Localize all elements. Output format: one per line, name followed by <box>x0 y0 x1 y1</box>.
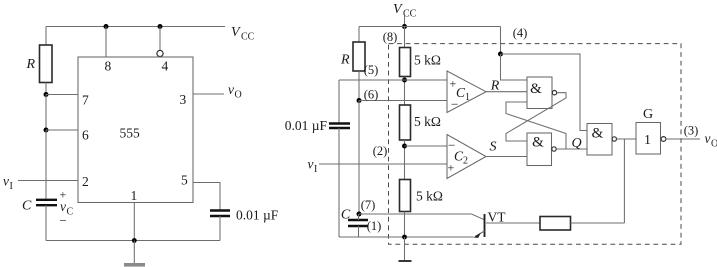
wire VCC top rail (right circuit) <box>359 26 501 28</box>
node dot pin7 (right) <box>357 212 362 217</box>
label 0.01 uF (right) <box>285 118 328 133</box>
comparator C1 <box>447 71 486 113</box>
nand gate2 (S) box <box>527 133 552 166</box>
label 5 kOhm middle <box>414 114 441 129</box>
wire column to pin7 node <box>358 101 360 215</box>
svg-text:(4): (4) <box>513 26 528 40</box>
pin label 1 <box>131 188 138 203</box>
svg-text:(5): (5) <box>364 63 379 77</box>
label vI (left) <box>3 174 13 193</box>
label (4) <box>513 26 528 40</box>
label G <box>643 107 653 122</box>
ground symbol (right) <box>399 237 412 261</box>
svg-text:CC: CC <box>403 9 417 20</box>
wire node2 to C2 minus <box>405 145 448 147</box>
label (2) <box>373 144 388 158</box>
wire pin 3 output <box>193 93 224 95</box>
svg-text:v: v <box>228 82 234 97</box>
svg-text:S: S <box>490 140 497 155</box>
pin label 2 <box>82 174 89 189</box>
label gate2 & <box>532 135 544 151</box>
svg-text:1: 1 <box>131 188 138 203</box>
label 1 in G <box>644 133 651 148</box>
pin label 3 <box>180 92 187 107</box>
capacitor C (left) plates <box>36 200 57 205</box>
svg-text:G: G <box>643 107 653 122</box>
pin 4 bubble <box>157 50 163 56</box>
wire VCC to resistor R top <box>45 27 47 46</box>
node dot pin6 <box>44 128 49 133</box>
label vI (right) <box>308 157 318 176</box>
pin label 4 <box>162 59 169 74</box>
resistor R (right) <box>353 42 365 71</box>
gate1 output bubble <box>552 91 556 95</box>
svg-text:4: 4 <box>162 59 169 74</box>
resistor R (left) <box>40 45 53 83</box>
svg-text:2: 2 <box>82 174 89 189</box>
wire bottom ground rail (left) <box>46 240 220 242</box>
dashed IC boundary box <box>389 44 682 245</box>
svg-text:5: 5 <box>181 173 188 188</box>
ground symbol (left) <box>124 241 145 267</box>
wire rail to resistor R (right) <box>358 27 360 43</box>
svg-text:(8): (8) <box>383 30 398 44</box>
wire base resistor to Q-bar node <box>571 222 625 224</box>
wire R bottom to node7 <box>45 83 47 95</box>
wire pin4 across to gate3 <box>501 54 588 131</box>
wire pin7 line to VT collector <box>359 214 485 220</box>
wire pin6 line to C1 <box>359 100 447 102</box>
wire pin5 line <box>339 79 447 81</box>
label 555 <box>120 126 141 141</box>
wire capacitor C to ground rail <box>45 205 47 240</box>
svg-text:&: & <box>532 135 544 151</box>
svg-text:3: 3 <box>180 92 187 107</box>
svg-text:v: v <box>60 199 66 214</box>
wire divider seg1 <box>404 77 406 106</box>
wire input vI to pin 2 <box>18 180 78 182</box>
svg-text:I: I <box>10 181 13 192</box>
svg-text:V: V <box>393 2 403 17</box>
label gate3 & <box>592 126 604 142</box>
label VCC (right) <box>393 2 417 20</box>
wire pin5 down to cap 0.01 (right) <box>338 80 340 123</box>
label vO (left) <box>228 82 242 101</box>
nand gate3 box <box>587 124 612 156</box>
node dot ground rail <box>132 238 137 243</box>
wire drop to VT base resistor <box>623 139 625 223</box>
wire cap 0.01 (right) to rail <box>338 128 340 237</box>
label 5 kOhm top <box>414 53 441 68</box>
svg-text:5 kΩ: 5 kΩ <box>416 189 443 204</box>
svg-text:VT: VT <box>488 210 507 225</box>
resistor 5k top <box>400 48 411 77</box>
svg-text:+: + <box>448 161 455 175</box>
svg-text:0.01 µF: 0.01 µF <box>236 208 279 223</box>
svg-text:(6): (6) <box>364 88 379 102</box>
svg-text:555: 555 <box>120 126 141 141</box>
wire R bottom down column <box>358 71 360 101</box>
svg-text:8: 8 <box>105 59 112 74</box>
wire pin4 drop into box <box>500 27 502 55</box>
svg-text:C: C <box>67 207 74 218</box>
wire pin 1 drop <box>133 203 135 241</box>
wire C2 output to S input <box>486 156 527 158</box>
capacitor 0.01uF (left) plates <box>210 211 230 217</box>
IC 555 box <box>78 57 193 203</box>
svg-text:R: R <box>26 57 36 72</box>
wire node7 to node6 <box>45 95 47 131</box>
wire pin 7 <box>46 94 78 96</box>
svg-text:R: R <box>490 79 500 94</box>
wire pin 4 drop <box>159 27 161 51</box>
node dot pin7 <box>44 92 49 97</box>
wire VCC top rail (left circuit) <box>46 26 225 28</box>
wire VT base <box>486 222 540 224</box>
wire vI line to C2 plus <box>319 163 447 165</box>
svg-text:O: O <box>235 90 242 101</box>
svg-text:5 kΩ: 5 kΩ <box>414 53 441 68</box>
capacitor C (right) plates <box>348 220 368 226</box>
wire node6 down to capacitor C <box>45 130 47 199</box>
svg-text:1: 1 <box>465 92 470 103</box>
label S input <box>490 140 497 155</box>
resistor 5k middle <box>400 105 411 140</box>
wire pin4 to gate1 top input <box>501 54 528 80</box>
label (1) <box>367 219 382 233</box>
label Q <box>571 136 581 151</box>
svg-text:2: 2 <box>463 156 468 167</box>
node dot divider node1 <box>402 78 407 83</box>
label C2 markings <box>448 138 469 175</box>
wire gate3 to G gate <box>617 138 637 140</box>
svg-text:(3): (3) <box>684 124 699 138</box>
capacitor 0.01uF (right) plates <box>329 124 350 129</box>
wire pin 6 <box>46 129 78 131</box>
label 5 kOhm bottom <box>416 189 443 204</box>
transistor VT emitter with arrow <box>474 231 485 238</box>
label (7) <box>361 198 376 212</box>
label (6) <box>364 88 379 102</box>
buffer G box <box>636 123 661 155</box>
wire C1 output to R input <box>486 91 527 93</box>
label 0.01 uF (left) <box>236 208 279 223</box>
label (8) <box>383 30 398 44</box>
label R (right) <box>340 53 350 68</box>
svg-text:6: 6 <box>82 128 89 143</box>
transistor VT bar <box>484 214 486 237</box>
wire divider seg3 to rail <box>404 212 406 238</box>
label (5) <box>364 63 379 77</box>
svg-text:V: V <box>231 25 241 40</box>
svg-text:0.01 µF: 0.01 µF <box>285 118 328 133</box>
svg-text:(7): (7) <box>361 198 376 212</box>
label gate1 & <box>530 81 542 97</box>
svg-text:v: v <box>705 131 711 146</box>
pin label 8 <box>105 59 112 74</box>
svg-text:&: & <box>530 81 542 97</box>
node junction dot pin4 rail <box>158 24 163 29</box>
svg-text:−: − <box>60 213 67 228</box>
svg-text:1: 1 <box>644 133 651 148</box>
wire divider seg2 <box>404 140 406 180</box>
svg-text:I: I <box>314 164 317 175</box>
svg-text:&: & <box>592 126 604 142</box>
label (3) <box>684 124 699 138</box>
G output bubble <box>661 137 666 142</box>
nand gate1 (R) box <box>527 77 552 109</box>
node dot pin6 (right) <box>357 98 362 103</box>
label C (left) <box>22 199 32 214</box>
pin label 5 <box>181 173 188 188</box>
wire gate1 output cross to gate2 <box>506 93 566 141</box>
svg-text:Q: Q <box>571 136 581 151</box>
comparator C2 <box>447 135 486 179</box>
gate3 output bubble <box>612 137 616 141</box>
svg-text:(1): (1) <box>367 219 382 233</box>
node dot VCC <box>402 24 407 29</box>
wire cap 0.01 to rail <box>219 216 221 241</box>
svg-text:C: C <box>22 199 32 214</box>
base resistor <box>540 217 571 231</box>
wire gate2 output cross to gate1 <box>506 102 566 149</box>
label VCC (left) <box>231 25 255 43</box>
resistor 5k bottom <box>400 180 411 212</box>
label C (right) <box>341 208 351 223</box>
svg-text:O: O <box>711 139 717 150</box>
label vO (right) <box>705 131 717 150</box>
svg-text:−: − <box>451 97 458 112</box>
svg-text:7: 7 <box>82 93 89 108</box>
gate2 output bubble <box>552 147 556 151</box>
wire output pin3 <box>666 138 700 140</box>
label VT <box>488 210 507 225</box>
label R input <box>490 79 500 94</box>
label R (left) <box>26 57 36 72</box>
wire pin 5 to cap 0.01 <box>193 183 220 210</box>
label + vC - <box>60 188 74 229</box>
wire cap C stubs <box>358 214 360 237</box>
node dot rail-divider <box>402 235 407 240</box>
wire bottom rail (right) <box>339 236 474 238</box>
wire Q to gate3 <box>556 148 587 150</box>
svg-text:v: v <box>3 174 9 189</box>
svg-text:(2): (2) <box>373 144 388 158</box>
svg-text:v: v <box>308 157 314 172</box>
svg-text:CC: CC <box>241 32 255 43</box>
pin label 6 <box>82 128 89 143</box>
svg-text:5 kΩ: 5 kΩ <box>414 114 441 129</box>
label C1 markings <box>450 77 471 112</box>
wire VCC stub <box>404 16 406 27</box>
wire VCC drop to divider <box>404 27 406 48</box>
node dot pin4 <box>498 52 503 57</box>
node dot divider node2 <box>402 144 407 149</box>
pin label 7 <box>82 93 89 108</box>
wire pin 8 drop <box>105 27 107 58</box>
node junction dot pin8 rail <box>104 24 109 29</box>
svg-text:R: R <box>340 53 350 68</box>
